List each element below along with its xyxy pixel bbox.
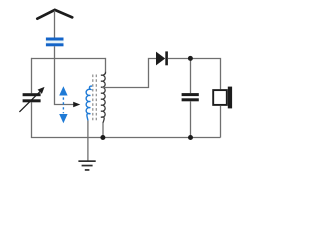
wire tap to diode riser (102, 59, 156, 88)
wire L2 bottom lead (102, 123, 104, 138)
blue dashed coupling arrow (59, 86, 67, 123)
capacitor C1 (antenna series cap, blue) (46, 38, 64, 47)
transformer core (dashed) (92, 75, 94, 121)
wire coil L1 to ground (87, 121, 89, 161)
speaker bar (228, 87, 232, 109)
wire antenna lead upper (54, 11, 56, 38)
variable capacitor arrow (19, 91, 40, 112)
inductor L1 primary coupling coil (blue) (86, 86, 92, 120)
wire speaker bottom lead (220, 106, 222, 138)
capacitor C3 plates (182, 93, 199, 101)
junction dot bottom (188, 135, 193, 140)
wire box left edge upper (31, 58, 33, 93)
wire C3 top lead (190, 59, 192, 94)
wire bottom rail (31, 137, 221, 139)
variable capacitor C2 plates (23, 93, 41, 102)
wire L2 top lead (104, 59, 107, 73)
arrowhead antenna coupling pointer (73, 102, 80, 108)
speaker body (213, 90, 227, 105)
wire box left edge lower (31, 102, 33, 137)
wire box top edge (31, 58, 106, 60)
wire diode cathode to junction (168, 58, 191, 60)
junction dot top (188, 56, 193, 61)
antenna (37, 10, 72, 19)
wire top rail to speaker corner (190, 59, 220, 90)
wire C3 bottom lead (190, 101, 192, 137)
ground (78, 160, 95, 171)
inductor L2 secondary tank coil (101, 72, 106, 123)
junction dot L2/bottom rail (100, 135, 105, 140)
wire antenna lead lower with bend (55, 46, 75, 104)
diode D1 (156, 52, 165, 66)
